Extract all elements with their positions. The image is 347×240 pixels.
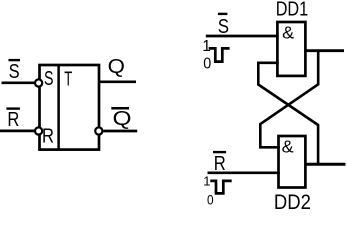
svg-text:0: 0 — [207, 191, 214, 207]
wire DD1 output to DD2 input 1 (cross-coupling) — [260, 51, 318, 148]
pulse waveform S input — [209, 48, 230, 61]
inversion bubble R input — [35, 127, 42, 134]
inversion bubble Q-bar output — [95, 127, 102, 134]
svg-text:Q: Q — [113, 108, 132, 130]
inversion bubble S input — [35, 79, 42, 86]
wire Q output — [99, 80, 136, 83]
svg-text:S: S — [9, 61, 20, 83]
gate DD1 body — [277, 22, 305, 76]
svg-text:1: 1 — [203, 173, 210, 188]
svg-text:1: 1 — [202, 38, 211, 55]
label R-bar (right) — [213, 152, 226, 175]
wire Q-bar output — [103, 130, 137, 133]
svg-text:DD1: DD1 — [276, 0, 309, 21]
svg-text:T: T — [64, 68, 72, 90]
svg-text:&: & — [282, 137, 294, 157]
label S-bar (right) — [218, 14, 229, 38]
svg-text:&: & — [282, 23, 294, 43]
gate DD2 body — [279, 136, 306, 188]
pulse waveform R input — [210, 181, 231, 194]
svg-text:S: S — [218, 16, 229, 38]
svg-text:0: 0 — [203, 56, 211, 73]
label S-bar (left input) — [9, 60, 21, 83]
svg-text:R: R — [42, 126, 54, 148]
svg-text:S: S — [44, 68, 54, 90]
svg-text:DD2: DD2 — [274, 191, 311, 211]
wire R-bar to DD2 input 2 — [208, 171, 280, 174]
svg-text:R: R — [214, 153, 226, 175]
label Q-bar (output) — [111, 108, 131, 130]
wire DD1 output — [305, 49, 344, 52]
wire R-bar input (left) — [0, 130, 34, 133]
wire DD2 output to DD1 input 2 (cross-coupling) — [258, 63, 318, 164]
svg-text:R: R — [7, 109, 19, 131]
svg-text:Q: Q — [108, 56, 125, 78]
label R-bar (left input) — [6, 109, 20, 131]
wire DD2 output — [305, 163, 345, 166]
wire S-bar input (left) — [2, 81, 35, 84]
T-trigger body (left block) — [40, 65, 100, 150]
wire S-bar to DD1 input 1 — [206, 35, 279, 38]
